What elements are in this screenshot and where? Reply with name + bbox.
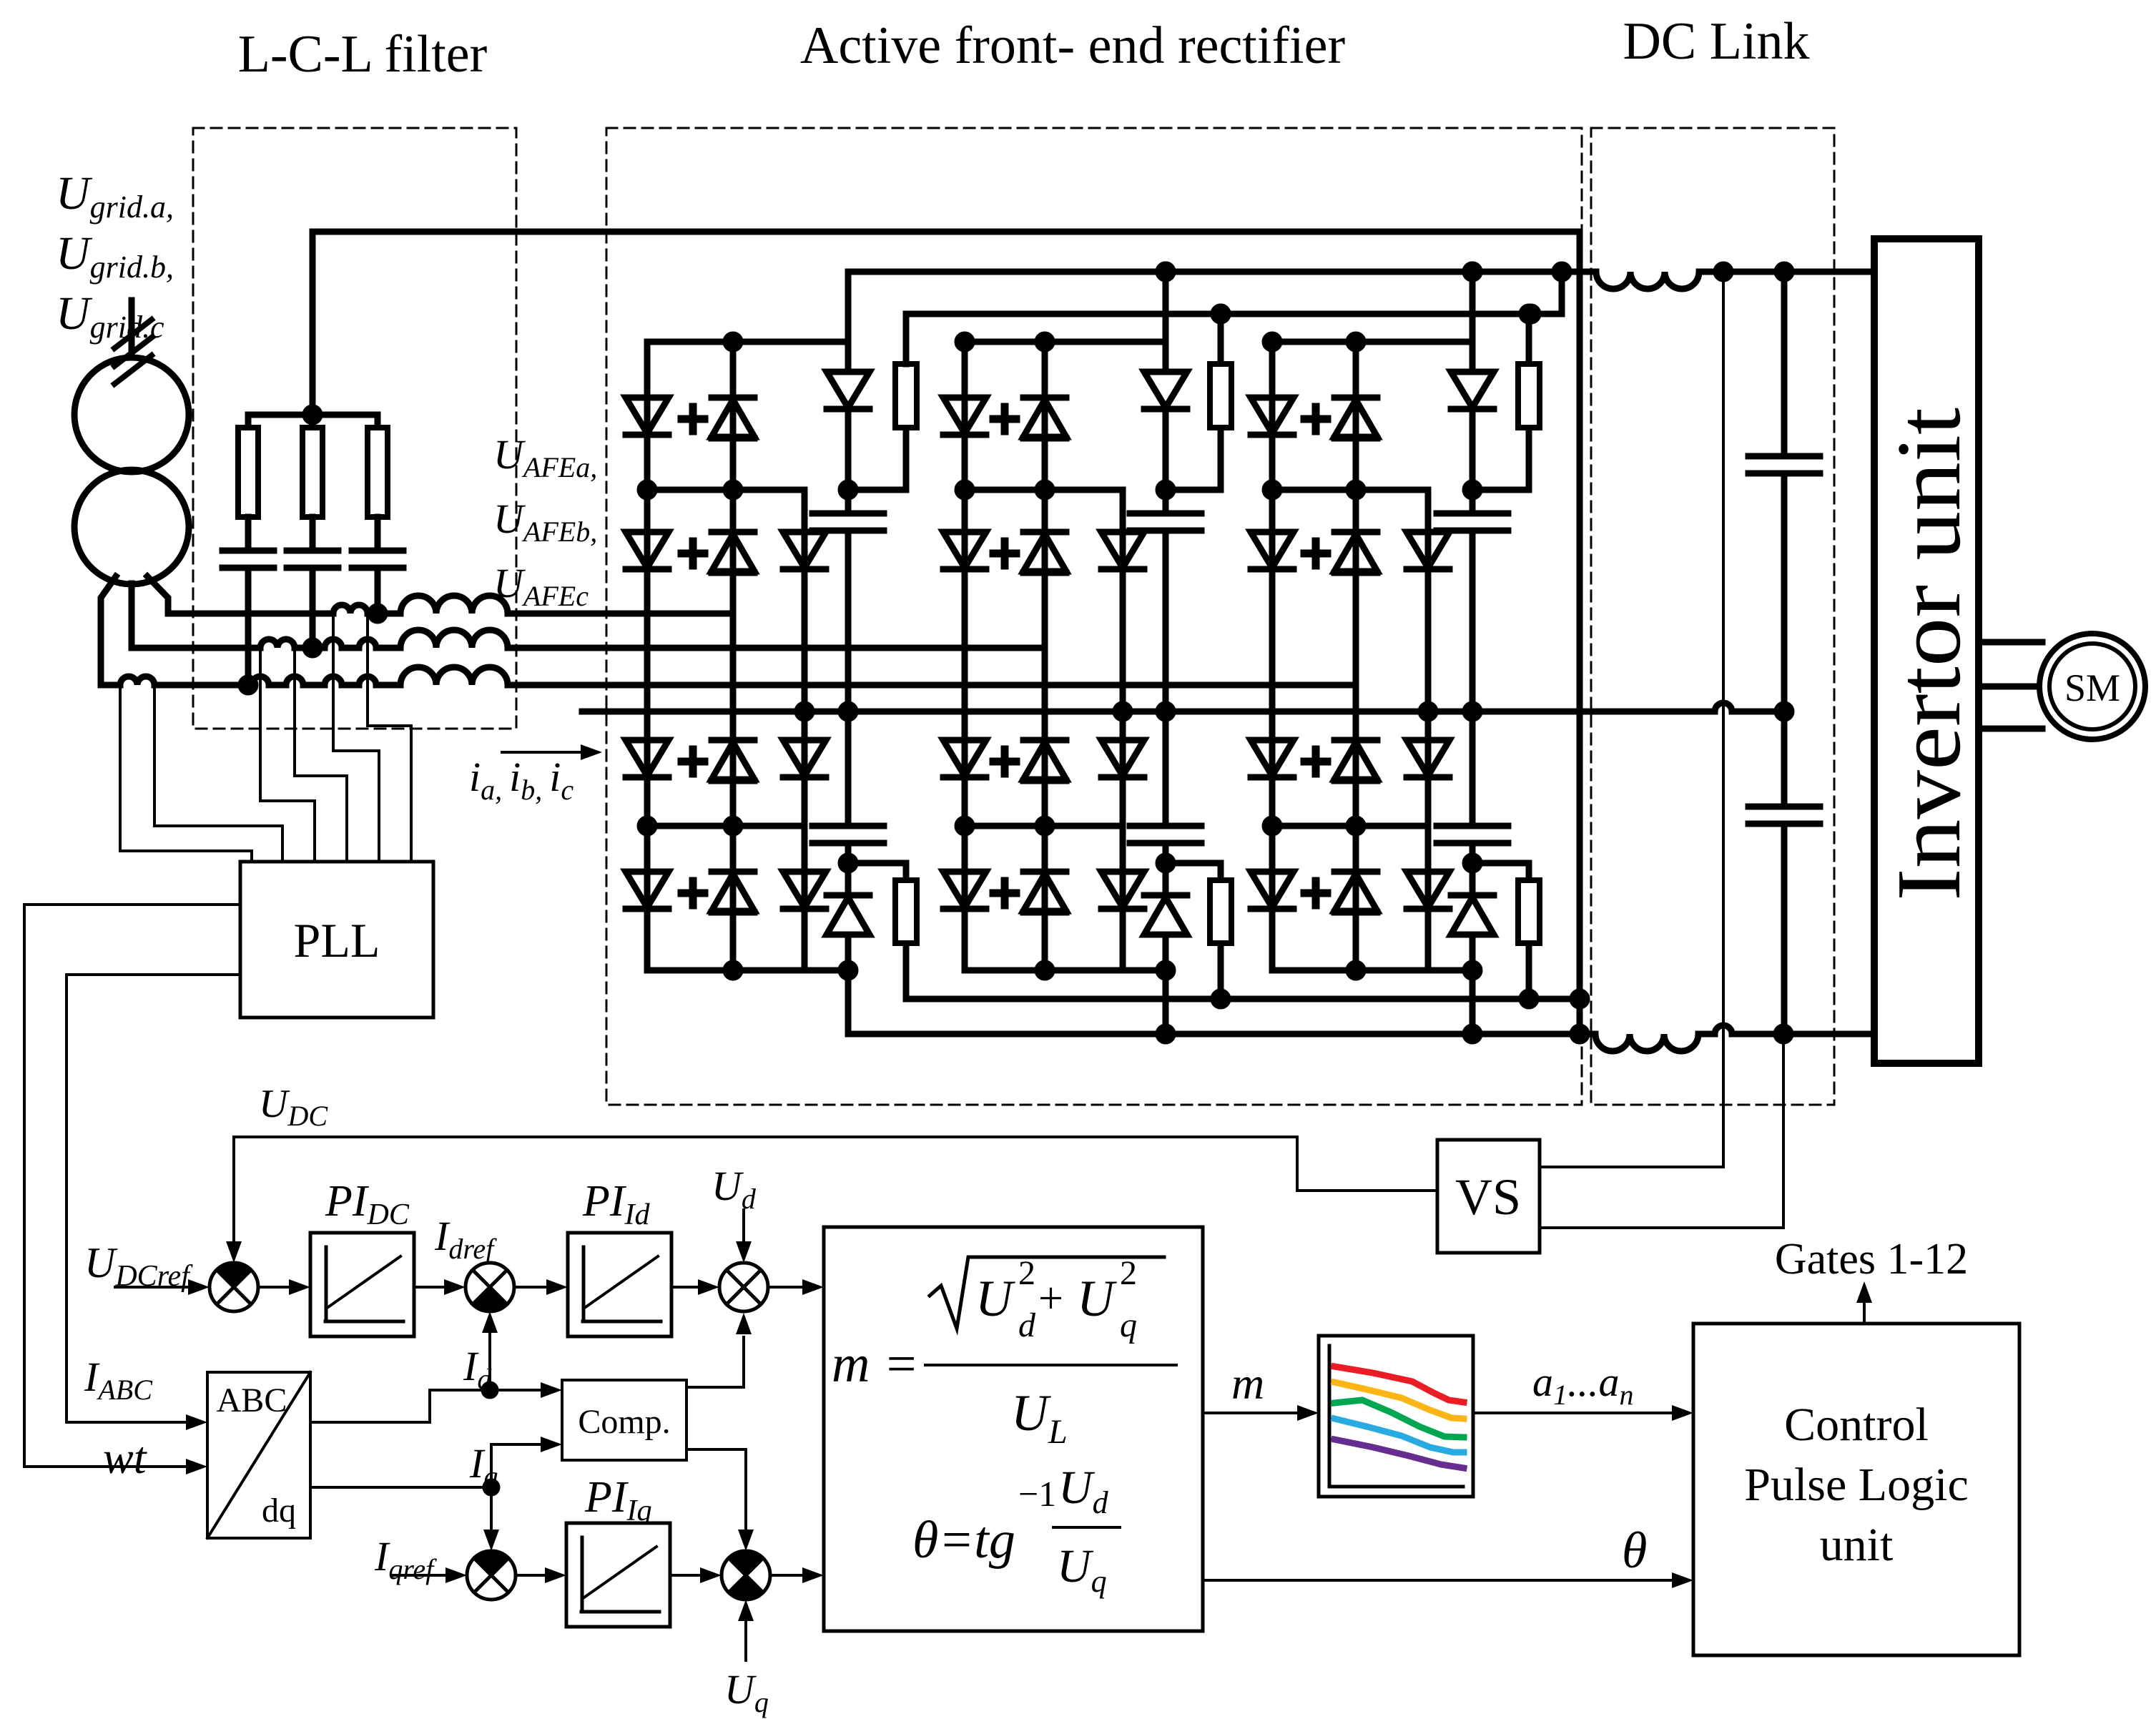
snubber diode VD1b	[827, 892, 870, 899]
snubber diode VD2b	[1144, 892, 1187, 899]
wires to SM	[1979, 642, 2042, 729]
diode D14	[626, 740, 669, 776]
summing junction S2	[466, 1263, 514, 1311]
bridge group 1: lower mid bus	[647, 823, 804, 829]
diode D25	[1101, 740, 1144, 776]
thyristor V23	[1023, 737, 1066, 744]
DC bottom rail with inductor	[848, 970, 1595, 1034]
svg-text:a1...an: a1...an	[1532, 1359, 1634, 1411]
thyristor V34	[1334, 869, 1377, 875]
Comp. block	[562, 1380, 686, 1460]
dashed box: DC Link	[1591, 128, 1834, 1105]
svg-text:SM: SM	[2064, 666, 2120, 709]
bridge group 2: bottom bus	[965, 967, 1166, 974]
snubber resistor R3a	[1518, 364, 1540, 428]
DC link capacitor C2	[1748, 807, 1820, 824]
wire Comp to S5 (upper output)	[686, 1337, 744, 1387]
diode D22	[943, 532, 986, 568]
wire PIId to S5	[671, 1286, 698, 1289]
wire: top bus from filter to DC link corner	[312, 232, 1580, 1034]
thyristor V24	[1023, 869, 1066, 875]
bridge group 2: upper mid bus	[965, 487, 1123, 493]
bridge group 3: bottom bus	[1272, 967, 1472, 974]
diode D17	[783, 872, 826, 907]
phase C line	[101, 682, 120, 689]
svg-text:Active front- end rectifier: Active front- end rectifier	[800, 16, 1345, 75]
snubber group 1 lower: wires	[848, 711, 906, 999]
wire m to graph	[1203, 1412, 1296, 1414]
synchronous machine SM	[2039, 634, 2145, 739]
summing junction S1	[210, 1263, 258, 1311]
wire UDCref input	[115, 1286, 188, 1289]
snubber resistor R1b	[895, 880, 917, 943]
svg-text:U: U	[1077, 1270, 1117, 1327]
wire Comp to S4	[686, 1449, 746, 1530]
PLL sense wires (staircase)	[120, 685, 252, 862]
wire S2 to PIId	[514, 1286, 546, 1289]
equation block	[824, 1227, 1203, 1631]
bridge group 2: top bus	[965, 339, 1166, 345]
thyristor V21	[1023, 395, 1066, 401]
wire Iq output	[310, 1486, 491, 1489]
wire PIDC to S2	[414, 1286, 444, 1289]
svg-text:PLL: PLL	[294, 913, 380, 967]
diode D13	[783, 532, 826, 568]
diode D26	[943, 872, 986, 907]
svg-text:2: 2	[1120, 1254, 1137, 1292]
voltage sense wire 1	[1540, 272, 1723, 1167]
phase A line with CT coil and filter inductor	[168, 611, 333, 617]
current arrow ia, ib, ic	[502, 751, 581, 754]
thyristor V31	[1334, 395, 1377, 401]
transformer output stubs	[101, 576, 168, 685]
svg-text:Invertor unit: Invertor unit	[1878, 408, 1979, 901]
DC link capacitor leg	[1781, 272, 1788, 1034]
diode D36	[1251, 872, 1294, 907]
svg-text:q: q	[1120, 1306, 1137, 1344]
voltage sense wire 2	[1540, 1034, 1783, 1228]
radical	[930, 1257, 1164, 1329]
wire S4 to equation block	[770, 1574, 802, 1577]
bridge group 3: lower mid bus	[1272, 823, 1428, 829]
wire Id to S2	[488, 1333, 491, 1390]
svg-text:Comp.: Comp.	[578, 1403, 670, 1441]
bridge group 3: upper mid bus	[1272, 487, 1428, 493]
thyristor V33	[1334, 737, 1377, 744]
filter leg at x=528: resistor + capacitor	[375, 415, 381, 428]
diode D37	[1407, 872, 1449, 907]
thyristor V13	[712, 737, 754, 744]
thyristor V32	[1334, 529, 1377, 536]
wire S5 to equation block	[768, 1286, 802, 1289]
snubber resistor R3b	[1518, 880, 1540, 943]
wire Gates 1-12	[1863, 1303, 1866, 1324]
wire theta to CPL	[1203, 1579, 1670, 1582]
wire S1 to PIDC	[258, 1286, 289, 1289]
svg-text:d: d	[1018, 1306, 1036, 1344]
DC rail (snubber resistor bus)	[906, 272, 1562, 364]
diode D34	[1251, 740, 1294, 776]
dashed box: Active front-end rectifier	[606, 128, 1582, 1105]
thyristor V12	[712, 529, 754, 536]
snubber group 3 lower: wires	[1472, 711, 1529, 999]
snubber diode VD3b	[1451, 892, 1494, 899]
snubber capacitor C1a	[812, 513, 884, 531]
diode D24	[943, 740, 986, 776]
snubber group 2 upper: wires	[1166, 272, 1221, 711]
bridge group 1: top bus	[647, 339, 848, 345]
snubber capacitor C3a	[1437, 513, 1508, 531]
diode D21	[943, 398, 986, 433]
summing junction S3	[467, 1551, 516, 1600]
thyristor V14	[712, 869, 754, 875]
svg-text:−1: −1	[1018, 1474, 1056, 1514]
snubber capacitor C1b	[812, 826, 884, 843]
DC positive rail (upper) with inductor	[848, 272, 1596, 342]
svg-text:VS: VS	[1455, 1168, 1521, 1226]
UDC feedback wire	[234, 1137, 1437, 1241]
diode D16	[626, 872, 669, 907]
thyristor V11	[712, 395, 754, 401]
snubber group 1 upper: wires	[848, 272, 906, 711]
wire: leg tails	[248, 568, 378, 685]
snubber resistor R2a	[1210, 364, 1231, 428]
svg-text:m =: m =	[832, 1335, 919, 1394]
bridge group 1: column wires	[647, 342, 804, 970]
PI Id block	[568, 1233, 671, 1336]
PLL block	[240, 862, 433, 1018]
fraction bar	[925, 1364, 1176, 1366]
wire Iq to Comp	[491, 1444, 541, 1487]
wire S3 to PIIq	[516, 1574, 545, 1577]
DC lower resistor-bus rail	[906, 996, 1580, 1003]
summing junction S5	[719, 1263, 768, 1311]
wire PIIq to S4	[670, 1574, 700, 1577]
snubber resistor R2b	[1210, 880, 1231, 943]
grid feeder with slashes	[129, 300, 135, 355]
bridge group 1: upper mid bus	[647, 487, 804, 493]
bridge group 3: top bus	[1272, 339, 1472, 345]
phase nodes	[370, 606, 385, 621]
filter leg at x=347: resistor + capacitor	[245, 415, 252, 428]
PI Iq block	[566, 1523, 670, 1627]
wire Iq to S3	[490, 1487, 493, 1530]
filter leg at x=437: resistor + capacitor	[310, 415, 316, 428]
dashed box: L-C-L filter	[193, 128, 516, 729]
diode D33	[1407, 532, 1449, 568]
snubber resistor R1a	[895, 364, 917, 428]
Invertor unit block	[1874, 239, 1979, 1063]
snubber capacitor C2b	[1130, 826, 1201, 843]
diode D11	[626, 398, 669, 433]
PLL output wires to ABC/dq	[24, 905, 240, 1467]
snubber capacitor C2a	[1130, 513, 1201, 531]
svg-text:Control: Control	[1784, 1399, 1929, 1451]
svg-text:m: m	[1231, 1358, 1264, 1409]
svg-text:dq: dq	[262, 1492, 296, 1530]
summing junction S4	[722, 1551, 770, 1600]
svg-text:DC Link: DC Link	[1623, 12, 1809, 71]
wire Uq into S4	[744, 1621, 747, 1660]
diode D32	[1251, 532, 1294, 568]
wire: filter shunt bus	[248, 412, 378, 418]
VS block	[1437, 1140, 1540, 1253]
snubber group 3 upper: wires	[1472, 272, 1529, 711]
svg-text:θ: θ	[1622, 1522, 1647, 1579]
ABC/dq transform block	[207, 1372, 310, 1538]
bridge group 2: lower mid bus	[965, 823, 1123, 829]
phase B line	[132, 645, 260, 651]
wire a1..an to CPL	[1473, 1412, 1670, 1414]
diode D12	[626, 532, 669, 568]
diode D15	[783, 740, 826, 776]
svg-text:wt: wt	[103, 1432, 148, 1483]
svg-text:Gates 1-12: Gates 1-12	[1775, 1235, 1968, 1284]
Control Pulse Logic unit block	[1693, 1324, 2019, 1655]
DC mid rail	[582, 703, 1784, 711]
diode D23	[1101, 532, 1144, 568]
lookup graph block	[1319, 1336, 1473, 1497]
svg-text:U: U	[975, 1270, 1015, 1327]
diode D27	[1101, 872, 1144, 907]
snubber diode VD1a	[827, 372, 870, 408]
snubber diode VD2a	[1144, 372, 1187, 408]
svg-text:ABC: ABC	[217, 1381, 287, 1419]
svg-text:+: +	[1038, 1274, 1063, 1323]
diode D31	[1251, 398, 1294, 433]
bridge group 1: bottom bus	[647, 967, 848, 974]
svg-text:unit: unit	[1820, 1519, 1894, 1571]
snubber group 2 lower: wires	[1166, 711, 1221, 999]
svg-text:θ=tg: θ=tg	[912, 1511, 1015, 1570]
svg-text:2: 2	[1018, 1254, 1035, 1292]
DC link capacitor C1	[1748, 456, 1820, 473]
svg-text:Pulse Logic: Pulse Logic	[1744, 1459, 1968, 1511]
diode D35	[1407, 740, 1449, 776]
thyristor V22	[1023, 529, 1066, 536]
wire Iqref input	[392, 1574, 446, 1577]
svg-text:L-C-L filter: L-C-L filter	[238, 25, 488, 84]
node: filter bus / top bus junction	[305, 408, 320, 422]
snubber diode VD3a	[1451, 372, 1494, 408]
bridge group 2: column wires	[965, 342, 1123, 970]
snubber capacitor C3b	[1437, 826, 1508, 843]
transformer T1 (two windings)	[74, 358, 189, 472]
PI DC block	[310, 1233, 414, 1336]
wire Id output	[310, 1390, 541, 1422]
bridge group 3: column wires	[1272, 342, 1428, 970]
wire Ud into S5	[742, 1210, 745, 1241]
